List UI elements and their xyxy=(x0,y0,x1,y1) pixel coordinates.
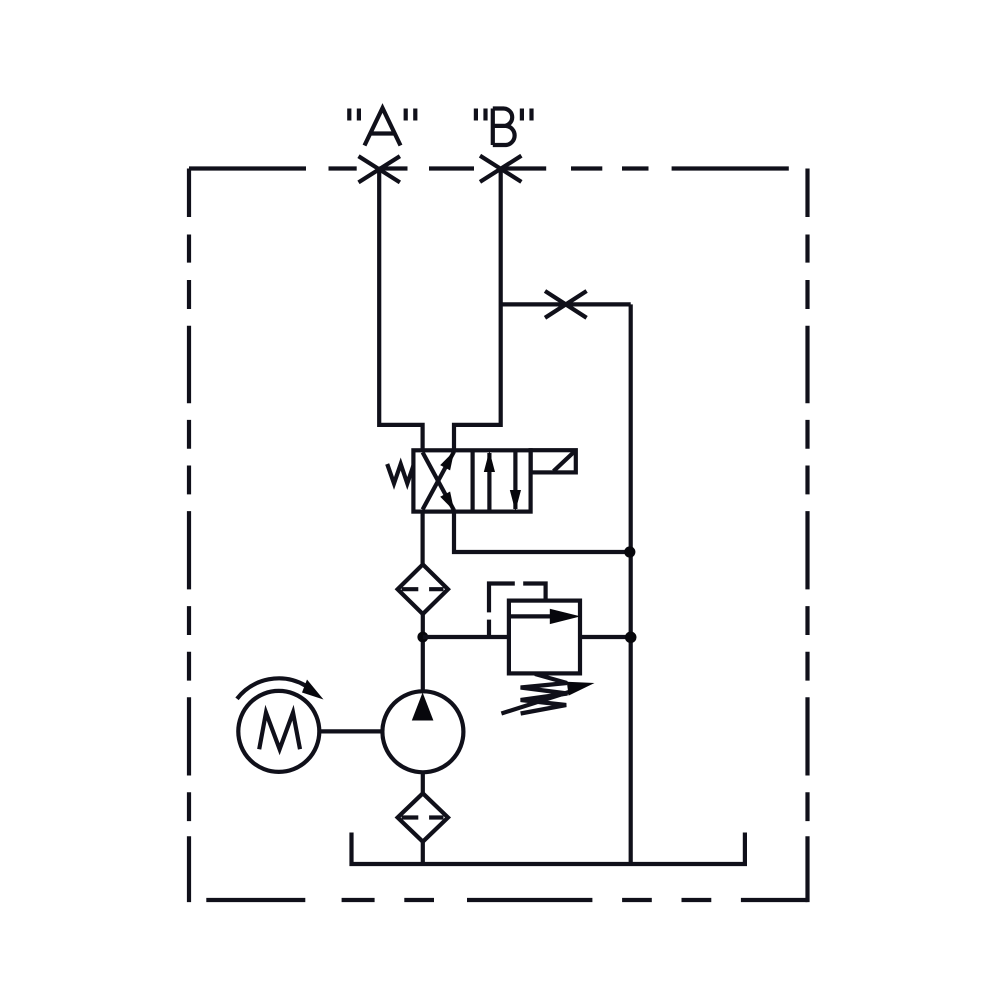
relief valve pilot dashed line xyxy=(489,584,546,638)
wire: filter F1 to pump junction xyxy=(421,614,425,692)
wire: right vertical line to tank xyxy=(629,304,633,864)
pump P1 circle xyxy=(382,691,463,772)
wire: port B down to valve xyxy=(454,169,501,451)
wire: relief valve to right vertical xyxy=(580,635,631,639)
valve spring (left) xyxy=(387,464,413,484)
relief valve adjustment arrow xyxy=(501,691,572,714)
port label "A" xyxy=(349,108,415,146)
relief valve internal arrow xyxy=(509,614,551,618)
motor letter M xyxy=(259,713,300,750)
wire: port A down to valve xyxy=(379,169,422,451)
valve solenoid (right) xyxy=(531,450,576,472)
motor M1 circle xyxy=(238,691,319,772)
wire: branch from B line to right vertical xyxy=(501,302,631,306)
relief valve spring xyxy=(521,674,568,714)
enclosure dashed border: right side xyxy=(805,169,809,903)
wire: filter F2 to tank xyxy=(421,842,425,864)
port B plug X xyxy=(480,156,521,182)
motor rotation arc xyxy=(237,678,305,698)
valve left position: crossed arrows xyxy=(423,451,455,511)
tank / reservoir line xyxy=(352,833,745,865)
relief valve RV1 body xyxy=(509,601,580,674)
wire: pump outlet down to filter F2 xyxy=(421,772,425,793)
directional valve DV1 body xyxy=(413,450,530,511)
pump flow triangle xyxy=(412,693,434,721)
branch plug X xyxy=(545,291,587,318)
filter F2 (lower) xyxy=(398,793,448,841)
shaft wire: motor to pump xyxy=(319,729,382,733)
port A plug X xyxy=(359,156,400,182)
wire: main horizontal line to relief valve xyxy=(423,635,509,639)
enclosure dashed border: left side xyxy=(187,169,191,903)
filter F1 (upper) xyxy=(398,564,448,614)
port label "B" xyxy=(476,109,532,146)
junction dot at right vertical / valve tank line xyxy=(624,546,635,557)
wire: valve bottom port 2 to right vertical xyxy=(454,512,630,552)
enclosure dashed border: bottom side xyxy=(206,898,807,902)
junction dot at pump line / main horizontal xyxy=(417,632,428,643)
valve right position: straight arrows xyxy=(484,450,521,511)
wire: valve bottom port 1 to filter F1 xyxy=(421,512,425,565)
junction dot at right vertical / main horizontal xyxy=(625,632,637,644)
enclosure dashed border: top side xyxy=(189,166,789,170)
motor rotation arrowhead xyxy=(302,680,324,700)
